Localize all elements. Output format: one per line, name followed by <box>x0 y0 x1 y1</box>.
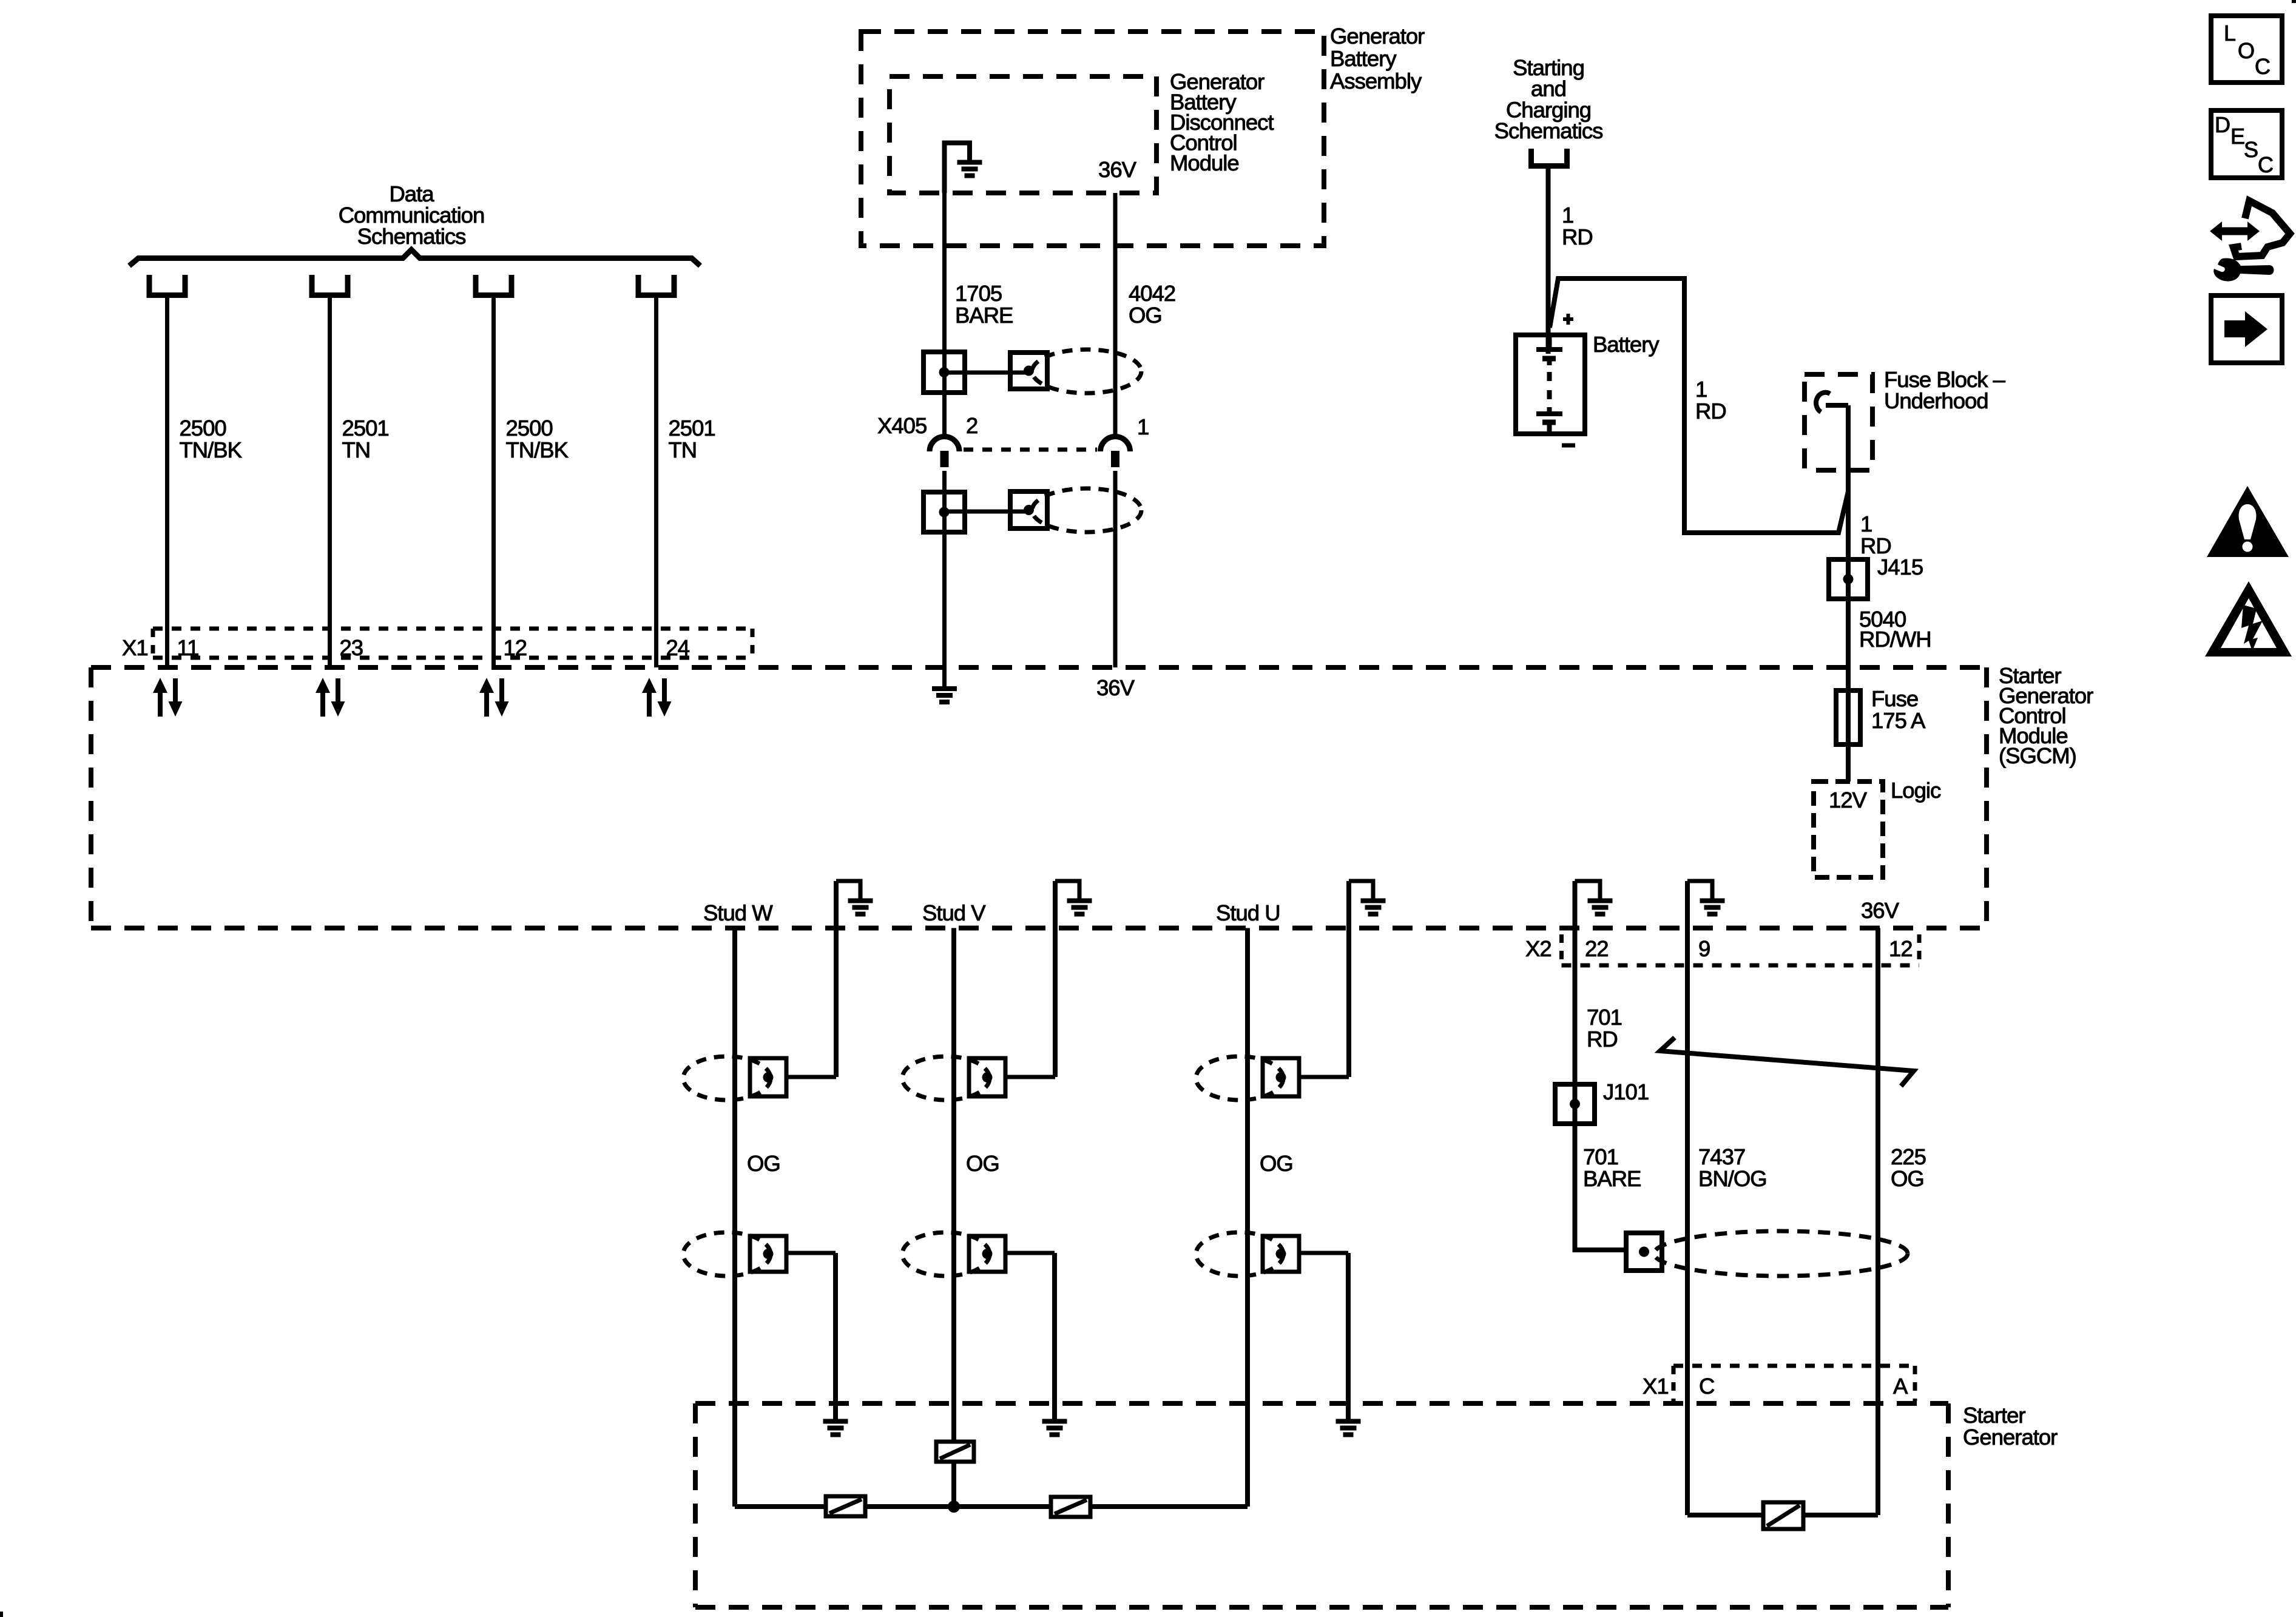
svg-text:24: 24 <box>666 635 690 660</box>
label: battery minus terminal <box>1562 444 1575 448</box>
pin 9 of X2 <box>1698 936 1710 961</box>
svg-text:L: L <box>2224 21 2235 46</box>
arrows: bidirectional data at pin 11 <box>153 678 183 717</box>
svg-text:1: 1 <box>1562 203 1573 228</box>
ground: Stud U lower lug ground <box>1336 1253 1361 1435</box>
svg-text:RD: RD <box>1562 224 1593 249</box>
label: wire 701 RD <box>1587 1005 1622 1052</box>
svg-text:701: 701 <box>1587 1005 1622 1030</box>
svg-text:12: 12 <box>1889 936 1913 961</box>
arrows: bidirectional data at pin 23 <box>316 678 345 717</box>
ground: Stud V lower lug ground <box>1042 1253 1067 1435</box>
node: Data Communication Schematics label <box>339 181 485 249</box>
pin C of X1 <box>1699 1374 1714 1399</box>
connector: data bus tap 4 <box>638 275 674 295</box>
wire circuit 7437 BN/OG (pin 9 to stud C) <box>1685 928 1690 1516</box>
pin 11 of X1 <box>177 635 199 660</box>
label: 36V (GBDCM output) <box>1098 157 1137 182</box>
svg-text:22: 22 <box>1585 936 1609 961</box>
svg-text:11: 11 <box>177 635 199 660</box>
module: Starter Generator dashed box <box>695 1403 1948 1607</box>
svg-text:OG: OG <box>747 1151 780 1176</box>
label: wire 5040 RD/WH <box>1859 607 1931 652</box>
label: wire 1 RD (lower) <box>1860 511 1891 558</box>
svg-text:X1: X1 <box>1643 1374 1669 1399</box>
wire circuit 701 RD / 701 BARE <box>1575 928 1627 1253</box>
svg-text:1705: 1705 <box>955 281 1002 306</box>
svg-text:12: 12 <box>504 635 527 660</box>
module: Generator Battery Assembly dashed box <box>861 32 1324 246</box>
icon: electrical hazard triangle <box>2205 581 2292 657</box>
svg-text:Battery: Battery <box>1330 46 1397 71</box>
splice: ring terminal pair lower (1705 wire) <box>923 491 1047 532</box>
mark: page corner dot bottom left <box>0 1612 3 1617</box>
svg-text:Stud V: Stud V <box>922 900 986 925</box>
ground: GBDCM internal ground <box>945 143 982 194</box>
svg-text:X1: X1 <box>122 635 148 660</box>
svg-text:Underhood: Underhood <box>1884 388 1988 413</box>
svg-text:Schematics: Schematics <box>1494 118 1603 143</box>
svg-text:S: S <box>2244 137 2258 162</box>
svg-text:36V: 36V <box>1098 157 1137 182</box>
ring terminal upper on Stud U <box>1196 1056 1349 1100</box>
label: OG wire on Stud W <box>747 1151 780 1176</box>
svg-text:Logic: Logic <box>1891 778 1941 803</box>
svg-text:OG: OG <box>1260 1151 1293 1176</box>
icon: arrow box <box>2211 295 2282 363</box>
svg-text:7437: 7437 <box>1698 1144 1745 1169</box>
ring terminal lower on Stud V <box>902 1232 1055 1276</box>
svg-text:175 A: 175 A <box>1871 708 1926 733</box>
pin 12 of X1 <box>504 635 527 660</box>
wire: battery positive feed <box>1548 166 1849 533</box>
label: wire 701 BARE <box>1583 1144 1641 1191</box>
svg-text:C: C <box>1699 1374 1714 1399</box>
ground: Stud W lower lug ground <box>823 1253 848 1435</box>
svg-text:Stud U: Stud U <box>1216 900 1280 925</box>
connector X2 dashed strip <box>1562 934 1920 965</box>
component: Fuse Block - Underhood dashed box <box>1805 374 1872 470</box>
svg-text:12V: 12V <box>1829 788 1868 812</box>
svg-text:RD: RD <box>1695 399 1726 424</box>
svg-text:BARE: BARE <box>955 303 1013 328</box>
svg-text:OG: OG <box>1891 1166 1924 1191</box>
svg-text:225: 225 <box>1891 1144 1926 1169</box>
svg-text:OG: OG <box>966 1151 999 1176</box>
label: 36V pin 12 <box>1861 898 1900 923</box>
label: wire 1705 BARE <box>955 281 1013 328</box>
shield ellipse lower <box>1032 488 1141 532</box>
icon: diagnostic hand/wrench <box>2210 201 2290 282</box>
wire circuit 225 OG (pin 12 to stud A) <box>1876 928 1880 1516</box>
wire circuit 2500 TN/BK <box>491 295 496 667</box>
svg-text:Battery: Battery <box>1593 332 1660 357</box>
pin 24 of X1 <box>666 635 690 660</box>
arrows: bidirectional data at pin 12 <box>479 678 509 717</box>
splice: ring terminal pair upper (1705 wire) <box>923 352 1047 393</box>
label: Battery <box>1593 332 1660 357</box>
svg-text:TN: TN <box>342 437 371 462</box>
ground: Stud U case ground (upper) <box>1349 881 1386 1077</box>
label: Starter Generator <box>1963 1403 2058 1450</box>
winding: stator phase V-U <box>1051 1497 1090 1517</box>
svg-text:Stud W: Stud W <box>703 900 773 925</box>
winding: stator phase W-V <box>826 1496 865 1516</box>
svg-text:Fuse: Fuse <box>1871 686 1918 711</box>
svg-text:RD/WH: RD/WH <box>1859 627 1931 652</box>
label: 36V pin at SGCM (4042) <box>1096 675 1135 700</box>
shield ellipse upper <box>1032 349 1141 393</box>
brace: data communication bus brace <box>129 250 700 266</box>
battery G1 <box>1516 335 1585 434</box>
svg-text:A: A <box>1893 1374 1908 1399</box>
svg-text:1: 1 <box>1860 511 1872 536</box>
junction: stator neutral point <box>948 1501 960 1513</box>
module: Starter Generator Control Module (SGCM) dashed box <box>91 667 1987 928</box>
ring terminal upper on Stud W <box>683 1056 836 1100</box>
svg-text:701: 701 <box>1583 1144 1618 1169</box>
svg-text:X2: X2 <box>1525 936 1551 961</box>
pin 2 of X405 <box>966 413 977 438</box>
svg-text:TN/BK: TN/BK <box>506 437 569 462</box>
ground: 1705 BARE chassis ground at SGCM <box>932 689 957 702</box>
ring terminal upper on Stud V <box>902 1056 1055 1100</box>
svg-text:BARE: BARE <box>1583 1166 1641 1191</box>
wire: stator bus W-V-U <box>735 1504 1248 1509</box>
svg-text:TN/BK: TN/BK <box>180 437 242 462</box>
svg-text:9: 9 <box>1698 936 1710 961</box>
module: Generator Battery Disconnect Control Module dashed box <box>890 76 1156 193</box>
svg-text:J101: J101 <box>1603 1079 1649 1104</box>
label: OG wire on Stud V <box>966 1151 999 1176</box>
label: wire 1 RD (top) <box>1562 203 1593 249</box>
icon: DESC box <box>2211 110 2282 178</box>
label: J415 <box>1877 555 1923 579</box>
connector: data bus tap 3 <box>476 275 512 295</box>
wire: fuse block to J415 to SGCM <box>1846 405 1851 781</box>
svg-text:36V: 36V <box>1096 675 1135 700</box>
fusible link curl inside fuse block <box>1816 393 1848 412</box>
svg-text:RD: RD <box>1587 1027 1618 1052</box>
svg-text:Generator: Generator <box>1330 24 1425 49</box>
svg-text:2: 2 <box>966 413 977 438</box>
label: wire 4042 OG <box>1129 281 1175 328</box>
svg-text:2501: 2501 <box>342 416 389 441</box>
label: wire 1 RD (middle) <box>1695 377 1726 424</box>
node: Starting and Charging Schematics <box>1494 55 1603 143</box>
svg-text:O: O <box>2238 38 2254 63</box>
svg-text:Assembly: Assembly <box>1330 69 1422 93</box>
svg-text:4042: 4042 <box>1129 281 1175 306</box>
svg-text:TN: TN <box>669 437 697 462</box>
pin 12 of X2 <box>1889 936 1913 961</box>
connector X405 halves: arcs, dashed link, male terminals <box>930 437 1130 468</box>
icon: warning triangle <box>2207 486 2289 557</box>
mark: page corner dot top right <box>2292 0 2296 3</box>
connector X1 (SGCM top) dashed strip <box>153 629 752 658</box>
connector X1 (starter generator) dashed strip <box>1673 1366 1915 1401</box>
pointer arrow across wires <box>1660 1038 1914 1086</box>
label: connector X1 <box>122 635 148 660</box>
svg-text:2500: 2500 <box>506 416 553 441</box>
splice J415 <box>1829 559 1868 599</box>
connector: data bus tap 2 <box>312 275 348 295</box>
winding: stator phase V (vertical) <box>936 1442 974 1462</box>
label: Fuse Block - Underhood <box>1884 367 2006 413</box>
svg-text:2500: 2500 <box>180 416 226 441</box>
svg-text:36V: 36V <box>1861 898 1900 923</box>
svg-text:J415: J415 <box>1877 555 1923 579</box>
wire circuit 2501 TN <box>654 295 658 667</box>
svg-text:1: 1 <box>1137 414 1149 439</box>
splice J101 <box>1555 1084 1595 1124</box>
ground: SGCM pin 9 internal ground <box>1687 881 1725 928</box>
wire circuit 2500 TN/BK <box>165 295 169 667</box>
svg-text:OG: OG <box>1129 303 1162 328</box>
label: wire 2501 TN <box>669 416 715 462</box>
svg-text:X405: X405 <box>877 413 927 438</box>
connector: schematic tap <box>1531 149 1567 166</box>
label: 12V <box>1829 788 1868 812</box>
pin 22 of X2 <box>1585 936 1609 961</box>
arrows: bidirectional data at pin 24 <box>642 678 672 717</box>
label: Generator Battery Assembly <box>1330 24 1425 93</box>
ring terminal lower on Stud W <box>683 1232 836 1276</box>
label: Generator Battery Disconnect Control Module <box>1170 69 1274 175</box>
label: Logic <box>1891 778 1941 803</box>
fuse F: 175 A <box>1836 690 1860 744</box>
pin A of X1 <box>1893 1374 1908 1399</box>
wire circuit 4042 OG <box>1113 193 1118 667</box>
connector: data bus tap 1 <box>149 275 185 295</box>
svg-text:Generator: Generator <box>1963 1425 2058 1450</box>
label: battery plus terminal <box>1563 314 1573 325</box>
label: wire 2500 TN/BK <box>180 416 242 462</box>
ring terminal lower on Stud U <box>1196 1232 1348 1276</box>
wire circuit 1705 BARE <box>942 193 947 686</box>
svg-text:Schematics: Schematics <box>357 224 466 249</box>
wire circuit 2501 TN <box>328 295 332 667</box>
label: wire 2500 TN/BK <box>506 416 569 462</box>
label: connector X2 <box>1525 936 1551 961</box>
svg-text:(SGCM): (SGCM) <box>1999 743 2076 768</box>
svg-text:D: D <box>2215 112 2230 137</box>
label: wire 7437 BN/OG <box>1698 1144 1767 1191</box>
ring terminal: 701 BARE ground lug <box>1626 1233 1662 1271</box>
ground: Stud W case ground (upper) <box>836 881 873 1077</box>
svg-text:Starter: Starter <box>1963 1403 2025 1428</box>
pin 23 of X1 <box>340 635 363 660</box>
ground: SGCM pin 22 internal ground <box>1575 881 1613 928</box>
svg-text:2501: 2501 <box>669 416 715 441</box>
svg-text:BN/OG: BN/OG <box>1698 1166 1767 1191</box>
svg-text:C: C <box>2258 152 2273 177</box>
wire: Stud V lead <box>951 928 956 1507</box>
label: Starter Generator Control Module (SGCM) <box>1999 663 2093 768</box>
shield ellipse large (starter generator leads) <box>1654 1231 1908 1276</box>
node: Stud W <box>703 900 773 925</box>
label: connector X1 (starter generator) <box>1643 1374 1669 1399</box>
label: Fuse 175 A <box>1871 686 1926 733</box>
label: OG wire on Stud U <box>1260 1151 1293 1176</box>
svg-text:C: C <box>2255 54 2270 79</box>
label: wire 225 OG <box>1891 1144 1926 1191</box>
ground: Stud V case ground (upper) <box>1055 881 1092 1077</box>
svg-text:1: 1 <box>1695 377 1707 402</box>
label: J101 <box>1603 1079 1649 1104</box>
svg-text:23: 23 <box>340 635 363 660</box>
winding: stator phase C-A <box>1687 1502 1878 1529</box>
svg-text:Module: Module <box>1170 150 1239 175</box>
node: Stud V <box>922 900 986 925</box>
label: wire 2501 TN <box>342 416 389 462</box>
icon: LOC box <box>2211 16 2282 83</box>
wire: Stud U lead <box>1245 928 1250 1507</box>
wire: Stud W lead <box>732 928 737 1507</box>
connector X405 <box>877 413 927 438</box>
node: Stud U <box>1216 900 1280 925</box>
pin 1 of X405 <box>1137 414 1149 439</box>
component: SGCM logic 12V dashed box <box>1814 781 1883 877</box>
svg-text:E: E <box>2230 124 2244 149</box>
